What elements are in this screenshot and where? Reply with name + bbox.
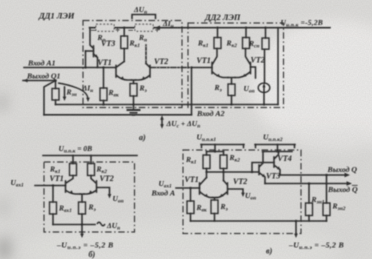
junction output Q1 [54,79,57,82]
dashed box DD2 [188,23,284,108]
wire bottom bus (b) [53,224,95,226]
wire Rk1 bottom [123,49,125,62]
wire output Q [280,174,347,176]
wire VT3 base riser [85,51,87,68]
junction Q/Ren2 [325,174,328,177]
wire Ren bottom [55,100,57,105]
parasitic resistor Rp2 (dashed) [135,24,153,31]
wire base VT1 DD2 [192,67,213,69]
resistor Rvk (DD1) [100,88,107,101]
wire supply drop (b) [81,225,83,236]
wire Uop stub (b) [97,188,110,196]
resistor Ren2 [323,203,330,216]
resistor Rvkh1 [50,202,57,214]
wire output Q1 [23,80,56,82]
arrowhead on rail [155,26,160,30]
transistor VT3 (DD1) [86,28,98,68]
transistor VT4 (v) [274,152,280,176]
ground symbol [127,105,141,116]
wire supply Uipk1 [201,144,244,146]
transistor VT1 (b) [66,176,81,195]
junction input/Rvkh1 [52,184,54,186]
resistor Rk1 (v) [203,155,210,169]
wire supply drop (v) [295,221,297,235]
wire rail2 (v) [263,151,293,153]
wire supply drop right [277,28,279,105]
wire common emitter node DD1 [132,80,136,84]
annotation dIn arrow (Ren) [64,87,66,98]
annotation dUc arrow [161,118,163,126]
wire input A1 [24,67,116,69]
resistor Ren1 [306,203,313,216]
wire Q1 to lower bus [44,81,56,115]
wire rail1 (v) [207,151,224,153]
wire Re bottom [133,96,135,105]
annotation leader curve [58,83,88,99]
resistor Rk2 (v) [220,155,227,169]
resistor Re (v) [211,200,218,214]
resistor Rsn (DD2) [262,38,269,49]
wire output Qbar [265,183,349,185]
wire input Uvkh1 [35,185,66,187]
wire Uop stub (v) [228,189,243,194]
wire base link (v) [207,171,260,173]
wire Rvk top [103,68,105,89]
junction Rvk/A1 [102,66,104,68]
arrowhead output Q1 [23,79,28,83]
resistor Re (b) [79,202,86,214]
squiggle dUp (b) [97,222,105,226]
transistor VT1 (v) [200,178,213,198]
transistor VT1 (DD2) [212,49,228,78]
wire bus lower (Vkhod A2) [44,114,192,116]
wire common emitter (v) [213,198,217,201]
wire Rk1 top stub [123,28,125,36]
wire common emitters DD2 [228,78,235,85]
resistor Rk2 (b) [88,164,95,176]
junction rail/Rk1 [123,27,125,29]
wire supply 0V [43,155,137,157]
parasitic resistor Rp1 (dashed) [96,24,114,31]
junctions on bus [102,103,104,105]
wire input (v) [176,187,200,189]
dashed box v [183,150,301,234]
resistor Rk2 (DD2) [243,38,250,49]
junction A2/base link [190,66,192,68]
wire A2 riser [191,68,193,115]
resistor Re (DD2) [228,84,235,96]
current source (DD2) [258,49,270,104]
wire Ren2 riser [326,175,328,203]
wire VT2 collector dashed [145,45,147,64]
resistor Rvk (v) [187,201,194,214]
transistor VT2 (DD2) [235,49,251,78]
wire Ren top [55,81,57,89]
wire supply rail [90,27,331,29]
junction Qbar/Ren1 [308,182,311,185]
wire common emitter (b) [80,194,84,202]
wire Rvk bottom [103,101,105,105]
junction VT3 base [84,66,86,68]
junction input/Rvk (v) [189,187,191,189]
resistor Rk1 (DD1) [121,36,128,49]
dU_p measuring bracket [132,15,156,19]
transistor VT1 (DD1) [116,62,132,81]
transistor VT3 (v) [259,152,265,184]
transistor VT2 (v) [217,181,228,198]
wire base link DD1-DD2 (dash-dot) [151,67,192,69]
wire bus upper [56,104,279,106]
dashed box b [44,162,135,232]
resistor Re (DD1) [130,84,137,97]
dashed box DD1 [83,21,182,108]
resistor Rk1 (b) [70,164,77,176]
wire VT2 base stub [251,67,256,78]
wire Ren1 riser [308,184,310,204]
wire VT4 base riser [252,163,274,173]
transistor VT2 (b) [84,176,97,195]
wire bottom bus (v) [191,220,327,222]
resistor Rk1 (DD2) [214,38,221,49]
transistor VT2 (DD1) [136,64,151,81]
resistor Ren [52,89,59,101]
wire supply Uipk2 [255,144,295,146]
